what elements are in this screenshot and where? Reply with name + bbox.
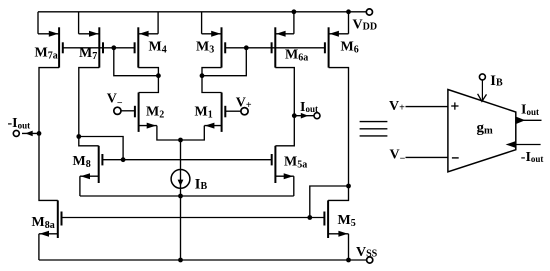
arrow Iout [301,113,309,119]
label Iout gm [521,103,539,118]
junction M4 drain node [156,73,161,78]
transistor M5 [324,200,355,238]
transistor M2 [135,93,164,132]
wire M8a source down [38,234,40,260]
wire gate tap down (left) [114,48,159,76]
wire VDD top rail [38,11,367,13]
current source IB [171,170,190,189]
junction left gate net [111,45,116,50]
node VDD terminal [366,9,372,15]
wire VSS link row [80,195,294,197]
label V- [107,91,123,109]
label gm [477,120,494,136]
transistor M7 [79,12,103,68]
wire -Iout lead [22,132,39,134]
wire V+ lead [406,106,448,108]
arrow Iout gm [516,117,525,124]
junction M3 drain node [200,73,205,78]
junction tail node [178,138,183,143]
junction right gate net [244,45,249,50]
label V+ [236,96,252,111]
op-amp gm block [448,90,516,172]
wire V- lead [406,156,448,158]
wire VSS bottom rail [39,259,367,261]
wire M4 drain to M2 drain [138,68,158,93]
label IB gm [490,73,503,89]
node VSS terminal [367,257,373,263]
arrow -Iout [25,131,33,137]
wire M6 drain to M5 drain [328,68,348,201]
wire M8 diode connection [79,137,123,160]
node V- input [114,107,135,114]
junction bias bottom node [178,194,183,199]
wire gate net M7a-M7-M4 [63,47,135,49]
label -Iout [8,116,31,131]
label V- gm [390,147,406,164]
junction M6 drain tap [346,184,351,189]
transistor M8a [32,200,62,238]
node V+ input [225,108,248,115]
transistor M5a [272,146,308,183]
label -Iout gm [521,150,544,165]
node Iout terminal [314,113,320,119]
wire M1 source to tail [181,126,205,140]
label IB [195,176,208,192]
transistor M6 [325,12,359,68]
wire M6a drain to M5a drain [275,68,294,146]
junction Iout node [292,113,297,118]
wire -Iout gm [516,144,541,146]
wire M5 source down [348,234,350,260]
wire gate tap down (right) [202,48,246,76]
junction M5 source on VSS rail [346,258,351,263]
wire M5a source down [293,176,295,196]
node IB bias terminal [479,74,485,80]
wire Iout lead [294,115,314,117]
transistor M8 [73,146,103,183]
arrow -Iout gm [506,141,516,148]
label VSS [356,245,378,260]
wire Iout gm [516,119,542,121]
transistor M7a [35,12,63,68]
junction bottom gate node [307,215,312,220]
wire gate net M8-M5a [102,159,271,161]
transistor M4 [135,12,167,68]
wire IB bias lead [478,80,487,102]
label - input [452,157,459,159]
wire gate net M3-M6a-M6 [225,47,325,49]
equivalence symbol [360,122,388,136]
transistor M1 [195,93,226,132]
junction bias on VSS rail [178,258,183,263]
label + input [451,102,458,109]
wire M5 diode tap [310,186,349,218]
label Iout [300,100,318,115]
node -Iout terminal [13,130,19,136]
wire M8 source down [79,176,81,196]
wire M2 source to tail [157,126,181,140]
label V+ gm [389,99,405,114]
junction on VDD rail (M6a source) [292,9,297,14]
junction M8 drain node [76,134,81,139]
transistor M3 [196,12,225,68]
junction on VDD rail (M6 source) [346,9,351,14]
wire tail to current source [180,140,182,260]
wire M7a drain / -Iout spine [39,68,59,201]
wire gate net M8a-M5 [62,217,325,219]
wire M3 drain to M1 drain [202,68,222,93]
wire M7 drain to M8 drain [79,68,100,146]
junction -Iout node [37,131,42,136]
transistor M6a [272,12,309,68]
junction M8 gate node [121,157,126,162]
label VDD [353,17,378,32]
